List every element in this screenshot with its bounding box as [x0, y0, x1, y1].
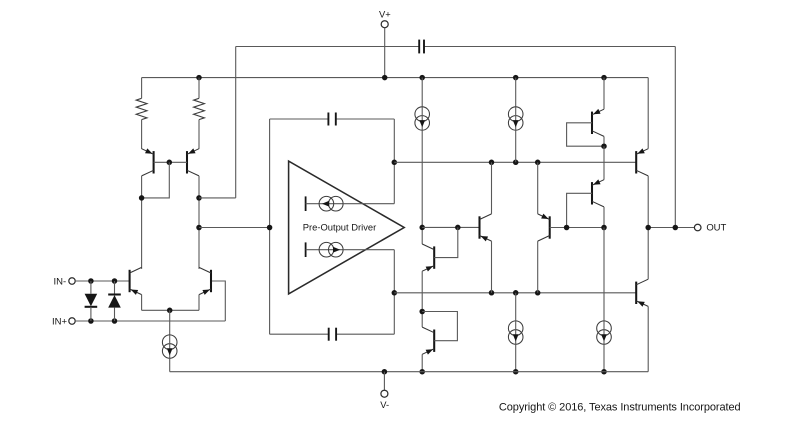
- junction dot node D: [419, 309, 425, 315]
- wire Q11 collector down: [603, 207, 605, 228]
- junction dot bias bus / Q11 base: [564, 225, 570, 231]
- wire I1 down to node C: [421, 130, 423, 244]
- wire R1 to Q1 emitter: [141, 120, 143, 149]
- capacitor C3 (driver bottom): [329, 328, 336, 341]
- diode D2 (anode down): [108, 281, 121, 321]
- junction dot upper bus / Q7 collector: [489, 160, 495, 166]
- resistor R1: [136, 98, 147, 119]
- capacitor C1: [419, 40, 424, 54]
- junction dot IN- / D2: [112, 278, 118, 284]
- transistor Q11 (diode PNP): [592, 179, 604, 207]
- junction dot OUT / comp cap: [673, 225, 679, 231]
- wire node B to driver input: [199, 227, 270, 229]
- junction dot mirror bases: [167, 160, 173, 166]
- wire I3 to right vertical: [343, 203, 394, 205]
- wire mirror-output to comp cap: [235, 47, 237, 198]
- wire IN+ riser to Q4 base: [211, 281, 225, 321]
- junction dot I6 / V- rail: [601, 369, 607, 375]
- junction dot driver input: [267, 225, 273, 231]
- wire tail node: [142, 309, 199, 311]
- wire Q2 collector down: [198, 176, 200, 269]
- wire Q8 emitter from rail: [603, 78, 605, 110]
- junction dot driver out lower: [392, 290, 398, 296]
- svg-text:IN-: IN-: [54, 276, 67, 287]
- current source I5: [508, 321, 523, 344]
- junction dot Q8 collector node: [601, 143, 607, 149]
- wire Q8 node to Q11 emitter: [603, 146, 605, 180]
- IN- terminal: [54, 276, 76, 287]
- resistor R2: [194, 98, 205, 119]
- current source I2: [508, 107, 523, 130]
- wire Q8 base loop: [567, 123, 604, 146]
- wire I5 to V- rail: [515, 344, 517, 371]
- junction dot driver out upper: [392, 160, 398, 166]
- wire driver right vertical upper: [393, 119, 395, 204]
- junction dot bias bus / Q11 collector: [601, 225, 607, 231]
- wire IN+ run: [75, 320, 225, 322]
- current source I1: [415, 107, 430, 130]
- junction dot V+ rail / Q8: [601, 75, 607, 81]
- wire Q6 base loop: [422, 312, 457, 341]
- capacitor C2 (driver top): [328, 113, 335, 126]
- junction dot upper bus / I2: [513, 160, 519, 166]
- junction dot IN- / D1: [88, 278, 94, 284]
- wire V+ rail to I1: [421, 78, 423, 107]
- transistor Q1 (mirror, diode-connected PNP): [142, 148, 154, 176]
- wire Q7 collector up: [491, 162, 493, 214]
- transistor Q9 (output PNP, top): [636, 148, 648, 176]
- V+ terminal: [379, 8, 391, 27]
- junction dot node B / driver input tap: [196, 225, 202, 231]
- wire Q10 collector down: [537, 241, 539, 293]
- junction dot V+ rail / R2: [196, 75, 202, 81]
- transistor Q2 (mirror PNP): [187, 148, 199, 176]
- OUT terminal: [694, 222, 726, 233]
- transistor Q10 (PNP): [538, 214, 550, 242]
- transistor Q7 (NPN): [480, 214, 492, 242]
- wire Q7 emitter down: [491, 241, 493, 293]
- wire Q11 base loop: [567, 193, 592, 227]
- junction dot lower bus / Q10 collector: [535, 290, 541, 296]
- transistor Q5 (diode PNP): [422, 244, 434, 272]
- wire Q10 emitter riser: [537, 162, 539, 214]
- wire bias node bus: [550, 227, 604, 229]
- junction dot tail: [167, 308, 173, 314]
- wire driver bottom cap line: [270, 333, 395, 335]
- wire Q12 emitter to V- rail: [647, 306, 649, 371]
- op-amp U1 (pre-output driver triangle): [289, 161, 405, 294]
- wire bias node to I6: [603, 228, 605, 321]
- junction dot lower bus / Q7 emitter: [489, 290, 495, 296]
- junction dot upper bus / Q10 emitter: [535, 160, 541, 166]
- junction dot node B (mirror out): [196, 195, 202, 201]
- current source I0 (tail): [162, 335, 177, 358]
- wire node B to comp cap riser: [199, 197, 236, 199]
- wire Q9 collector to OUT: [647, 176, 649, 228]
- wire R2 top lead: [198, 78, 200, 99]
- diode D1 (anode up): [85, 281, 98, 321]
- wire V+ rail to I2: [515, 78, 517, 107]
- wire I0 to V- rail: [169, 358, 171, 371]
- junction dot IN+ / D2: [112, 318, 118, 324]
- wire driver left vertical: [269, 119, 271, 334]
- junction dot V+ rail / I1: [419, 75, 425, 81]
- wire V- drop: [383, 372, 385, 390]
- transistor Q4 (input PNP, non-inverting): [199, 267, 211, 295]
- wire lower bus to I5: [515, 293, 517, 321]
- junction dot IN+ / D1: [88, 318, 94, 324]
- junction dot node C: [419, 225, 425, 231]
- wire R1 top lead: [141, 78, 143, 99]
- wire mirror bases to Q1 collector: [142, 162, 170, 198]
- V- terminal: [380, 390, 389, 410]
- wire V+ to top rail: [384, 28, 386, 78]
- junction dot node A (Q1 col / bases tap): [139, 195, 145, 201]
- wire I2 down to upper bus: [515, 130, 517, 162]
- wire comp cap to OUT: [674, 47, 676, 228]
- wire I6 to V- rail: [603, 344, 605, 371]
- transistor Q12 (output NPN, bottom): [636, 279, 648, 307]
- svg-text:IN+: IN+: [52, 316, 68, 327]
- wire V+ rail: [142, 77, 649, 79]
- junction dot V+ rail / I2: [513, 75, 519, 81]
- transistor Q8 (diode PNP): [592, 109, 604, 137]
- current source I4 (driver lower): [306, 242, 344, 257]
- wire I4 to right vertical: [343, 249, 394, 251]
- junction dot OUT / output devices: [645, 225, 651, 231]
- wire driver top cap line: [270, 118, 395, 120]
- svg-text:V-: V-: [380, 399, 389, 410]
- svg-text:Copyright © 2016, Texas Instru: Copyright © 2016, Texas Instruments Inco…: [499, 402, 741, 414]
- wire Q6 emitter to V- rail: [421, 354, 423, 371]
- wire V+ rail corner to Q9 emitter: [647, 78, 649, 149]
- wire Q8 collector down: [603, 136, 605, 146]
- IN+ terminal: [52, 316, 75, 327]
- svg-text:Pre-Output Driver: Pre-Output Driver: [303, 222, 376, 233]
- junction dot I5 / V- rail: [513, 369, 519, 375]
- wire Q5 emitter down to node D: [421, 271, 423, 327]
- wire lower bus (y293): [394, 292, 636, 294]
- current source I6: [597, 321, 612, 344]
- wire OUT: [648, 227, 694, 229]
- wire IN- to Q3 base: [75, 280, 129, 282]
- wire Q12 collector to OUT: [647, 228, 649, 280]
- transistor Q3 (input PNP, inverting): [130, 267, 142, 295]
- wire comp cap line: [236, 46, 676, 48]
- wire Q3 emitter down: [141, 295, 143, 311]
- copyright note: [499, 402, 741, 414]
- junction dot Q6 / V- rail: [419, 369, 425, 375]
- wire tail to I0: [169, 310, 171, 335]
- wire Q1 collector down: [141, 176, 143, 269]
- wire R2 to Q2 emitter: [198, 120, 200, 149]
- current source I3 (driver upper): [306, 196, 344, 211]
- wire Q1-Q2 bases: [154, 161, 187, 163]
- wire Q4 emitter down: [198, 295, 200, 311]
- svg-text:OUT: OUT: [706, 222, 726, 233]
- wire V- rail: [170, 371, 649, 373]
- wire node C to Q7 base: [422, 226, 479, 228]
- junction dot lower bus / I5: [513, 290, 519, 296]
- svg-text:V+: V+: [379, 8, 391, 19]
- transistor Q6 (diode PNP): [422, 327, 434, 355]
- wire Q5 base loop: [434, 227, 458, 257]
- junction dot V- rail / V-: [382, 369, 388, 375]
- junction dot V+ rail / V+: [382, 75, 388, 81]
- junction dot node C / Q5 base tap: [455, 225, 461, 231]
- wire driver right vertical lower: [393, 250, 395, 335]
- wire upper bus (y162): [394, 161, 636, 163]
